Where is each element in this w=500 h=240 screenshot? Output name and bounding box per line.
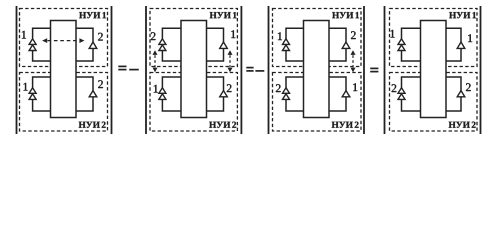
- determinant bar left, block 1: [16, 6, 18, 134]
- wire: top-left lower segment, block 1: [33, 51, 51, 62]
- wire: top-right lower segment, block 3: [329, 48, 346, 61]
- determinant bar right, block 4: [480, 6, 482, 134]
- label НУИ2, block 4: [449, 122, 476, 128]
- wire: bottom-left upper segment, block 1: [33, 77, 51, 88]
- NUI generator double-arrow, bottom-left triangle 2, block 4: [398, 94, 405, 100]
- determinant bar left, block 4: [384, 6, 386, 134]
- NUI2 dashed box (НУИ2), block 2: [150, 73, 237, 132]
- NUI2 dashed box (НУИ2), block 1: [20, 73, 108, 132]
- label НУИ1, block 1: [79, 12, 106, 18]
- pin label 1, bottom-left, block 2: [154, 85, 158, 93]
- pin label 1, top-right, block 4: [468, 34, 472, 42]
- wire: bottom-left lower segment, block 2: [162, 99, 181, 111]
- label НУИ1, block 2: [210, 12, 237, 18]
- two-port network rectangle, block 1: [51, 21, 77, 118]
- label НУИ1, block 4: [449, 12, 476, 18]
- pin label 2, top-left, block 2: [151, 32, 156, 40]
- NUI receiver single-arrow triangle, bottom-right, block 1: [89, 91, 97, 97]
- wire: top-left upper segment, block 3: [286, 28, 304, 39]
- NUI receiver single-arrow triangle, bottom-right, block 2: [220, 91, 228, 97]
- pin label 1, top-left, block 4: [391, 30, 395, 38]
- wire: top-left lower segment, block 2: [162, 51, 181, 62]
- pin label 2, top-right, block 1: [98, 33, 103, 41]
- pin label 1, top-right, block 2: [231, 30, 235, 38]
- NUI1 dashed box (НУИ1), block 4: [390, 9, 478, 67]
- pin label 1, top-left, block 1: [22, 31, 26, 39]
- pin label 2, bottom-right, block 2: [227, 84, 232, 92]
- wire: top-right lower segment, block 1: [76, 48, 93, 61]
- NUI generator double-arrow, top-left triangle 1, block 4: [398, 39, 405, 45]
- wire: bottom-left lower segment, block 1: [33, 99, 51, 111]
- wire: bottom-right upper segment, block 3: [329, 77, 346, 91]
- wire: bottom-left upper segment, block 2: [162, 77, 181, 88]
- two-port network rectangle, block 4: [421, 21, 447, 118]
- swap arrow (dashed, double-headed, vertical) between НУИ1 and НУИ2, x=155, block 2: [153, 50, 158, 72]
- NUI generator double-arrow, bottom-left triangle 1, block 3: [283, 88, 290, 94]
- wire: top-left lower segment, block 3: [286, 51, 304, 62]
- swap arrow (dashed, double-headed, horizontal) in НУИ1, block 1: [42, 38, 84, 43]
- NUI receiver single-arrow triangle, top-right, block 2: [220, 42, 228, 48]
- pin label 1, bottom-left, block 1: [24, 83, 28, 91]
- determinant bar left, block 3: [268, 6, 270, 134]
- wire: top-left upper segment, block 2: [162, 28, 181, 39]
- NUI generator double-arrow, top-left triangle 2, block 3: [283, 45, 290, 51]
- NUI1 dashed box (НУИ1), block 1: [20, 9, 108, 67]
- wire: bottom-left lower segment, block 3: [286, 99, 304, 111]
- wire: top-right lower segment, block 4: [446, 48, 461, 61]
- two-port network rectangle, block 3: [304, 21, 330, 118]
- pin label 2, bottom-right, block 1: [98, 80, 103, 88]
- determinant bar right, block 2: [240, 6, 242, 134]
- NUI generator double-arrow, top-left triangle 1, block 2: [159, 39, 166, 45]
- minus sign before block 2: [129, 69, 139, 71]
- swap arrow (dashed, double-headed, vertical) between НУИ1 and НУИ2, x=353, block 3: [351, 50, 356, 72]
- wire: bottom-right lower segment, block 4: [446, 97, 461, 111]
- label НУИ1, block 3: [332, 12, 359, 18]
- NUI receiver single-arrow triangle, top-right, block 1: [89, 42, 97, 48]
- NUI generator double-arrow, bottom-left triangle 2, block 3: [283, 94, 290, 100]
- equals sign between block 1 and minus: [118, 66, 126, 69]
- NUI receiver single-arrow triangle, bottom-right, block 3: [342, 91, 350, 97]
- equals sign between block 3 and block 4: [370, 68, 378, 71]
- pin label 1, top-left, block 3: [278, 32, 282, 40]
- NUI generator double-arrow, top-left triangle 2, block 2: [159, 45, 166, 51]
- NUI receiver single-arrow triangle, top-right, block 3: [342, 42, 350, 48]
- NUI generator double-arrow, top-left triangle 1, block 1: [29, 39, 36, 45]
- wire: bottom-left upper segment, block 3: [286, 77, 304, 88]
- NUI1 dashed box (НУИ1), block 3: [273, 9, 362, 67]
- determinant bar right, block 3: [363, 6, 365, 134]
- wire: top-left upper segment, block 4: [402, 28, 421, 39]
- label НУИ2, block 2: [209, 122, 236, 128]
- pin label 1, bottom-right, block 3: [353, 83, 357, 91]
- wire: bottom-right upper segment, block 1: [76, 77, 93, 91]
- NUI receiver single-arrow triangle, top-right, block 4: [457, 42, 465, 48]
- NUI generator double-arrow, top-left triangle 1, block 3: [283, 39, 290, 45]
- two-port network rectangle, block 2: [181, 21, 207, 118]
- wire: top-right upper segment, block 3: [329, 28, 346, 42]
- wire: top-right upper segment, block 4: [446, 28, 461, 42]
- equals sign between block 2 and minus: [246, 68, 253, 71]
- pin label 2, bottom-left, block 4: [392, 84, 397, 92]
- label НУИ2, block 3: [332, 122, 359, 128]
- NUI generator double-arrow, bottom-left triangle 1, block 2: [159, 88, 166, 94]
- wire: bottom-right upper segment, block 4: [446, 77, 461, 91]
- wire: top-right upper segment, block 1: [76, 28, 93, 42]
- wire: top-right lower segment, block 2: [207, 48, 224, 61]
- determinant bar right, block 1: [111, 6, 113, 134]
- wire: bottom-left lower segment, block 4: [402, 99, 421, 111]
- wire: bottom-right lower segment, block 2: [207, 97, 224, 111]
- pin label 2, bottom-left, block 3: [276, 84, 281, 92]
- NUI1 dashed box (НУИ1), block 2: [150, 9, 237, 67]
- determinant bar left, block 2: [145, 6, 147, 134]
- NUI generator double-arrow, bottom-left triangle 2, block 2: [159, 94, 166, 100]
- pin label 2, top-right, block 3: [351, 31, 356, 39]
- pin label 2, bottom-right, block 4: [466, 83, 471, 91]
- label НУИ2, block 1: [79, 122, 106, 128]
- NUI receiver single-arrow triangle, bottom-right, block 4: [457, 91, 465, 97]
- wire: bottom-left upper segment, block 4: [402, 77, 421, 88]
- wire: bottom-right lower segment, block 1: [76, 97, 93, 111]
- NUI generator double-arrow, bottom-left triangle 2, block 1: [29, 94, 36, 100]
- NUI2 dashed box (НУИ2), block 3: [273, 73, 362, 132]
- wire: top-left lower segment, block 4: [402, 51, 421, 62]
- NUI generator double-arrow, bottom-left triangle 1, block 1: [29, 88, 36, 94]
- wire: top-right upper segment, block 2: [207, 28, 224, 42]
- wire: bottom-right upper segment, block 2: [207, 77, 224, 91]
- minus sign before block 3: [255, 70, 264, 72]
- wire: top-left upper segment, block 1: [33, 28, 51, 39]
- NUI2 dashed box (НУИ2), block 4: [390, 73, 478, 132]
- NUI generator double-arrow, top-left triangle 2, block 4: [398, 45, 405, 51]
- swap arrow (dashed, double-headed, vertical) between НУИ1 and НУИ2, x=230, block 2: [228, 50, 233, 72]
- wire: bottom-right lower segment, block 3: [329, 97, 346, 111]
- NUI generator double-arrow, bottom-left triangle 1, block 4: [398, 88, 405, 94]
- NUI generator double-arrow, top-left triangle 2, block 1: [29, 45, 36, 51]
